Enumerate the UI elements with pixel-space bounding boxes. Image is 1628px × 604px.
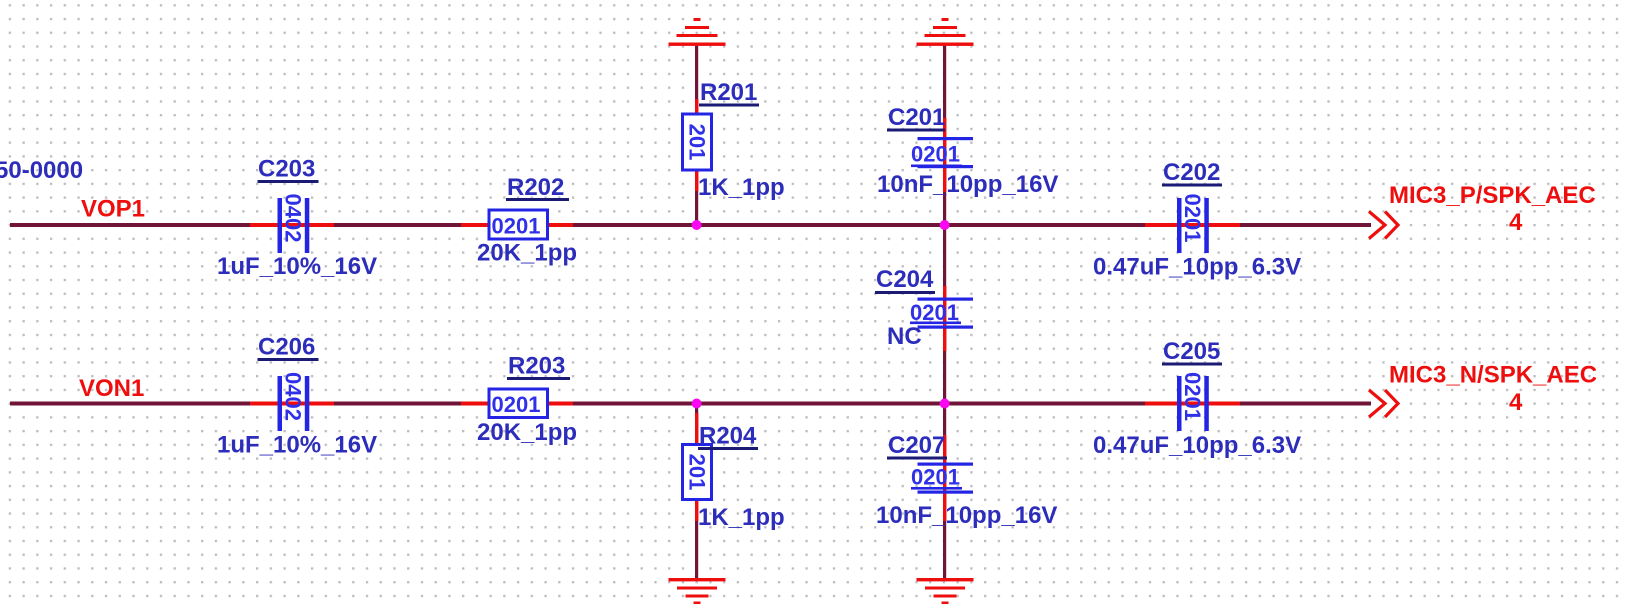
wire red pin stub R202 left: [461, 223, 489, 227]
svg-text:0201: 0201: [492, 214, 541, 239]
svg-text:C207: C207: [888, 432, 945, 459]
svg-text:C202: C202: [1163, 159, 1220, 186]
svg-text:10nF_10pp_16V: 10nF_10pp_16V: [877, 171, 1058, 198]
svg-text:1K_1pp: 1K_1pp: [698, 504, 785, 531]
capacitor C207 body: [911, 463, 973, 494]
svg-text:R202: R202: [507, 174, 564, 201]
svg-text:C206: C206: [258, 334, 315, 361]
svg-text:0201: 0201: [911, 142, 960, 167]
off-page connector MIC3_P chevron: [1369, 212, 1398, 239]
svg-text:0402: 0402: [281, 372, 306, 421]
svg-text:0201: 0201: [1180, 194, 1205, 243]
svg-text:C205: C205: [1163, 338, 1220, 365]
svg-text:VOP1: VOP1: [81, 196, 145, 223]
junction node VOP1/R201: [692, 220, 702, 230]
svg-text:VON1: VON1: [79, 375, 144, 402]
ground GND top-left (inverted earth): [669, 18, 726, 46]
capacitor C201 label: [887, 104, 945, 132]
resistor R202 label: [506, 174, 569, 201]
svg-text:20K_1pp: 20K_1pp: [477, 419, 577, 446]
capacitor C206 body: [278, 372, 310, 431]
capacitor C202 body: [1177, 194, 1209, 253]
wire vertical C201/C204/C207 branch: [943, 44, 946, 580]
resistor R204 body: [683, 445, 712, 500]
capacitor C201 body: [911, 137, 973, 168]
wire red pin stub R204 bottom: [695, 499, 698, 521]
resistor R204 label: [698, 423, 758, 451]
wire red pin stub R203 left: [461, 402, 489, 406]
ground GND top-right (inverted earth): [917, 18, 974, 46]
wire red pin stub R201 bottom: [695, 170, 698, 191]
svg-text:0201: 0201: [911, 465, 960, 490]
resistor R201 body: [683, 114, 712, 170]
svg-text:C203: C203: [258, 156, 315, 183]
wire red pin stub R204 top: [695, 413, 698, 445]
svg-text:201: 201: [685, 124, 710, 161]
svg-text:4: 4: [1509, 209, 1523, 236]
junction node VON1/C207: [940, 399, 950, 409]
capacitor C207 label: [887, 432, 947, 460]
svg-text:NC: NC: [887, 323, 922, 350]
svg-text:0201: 0201: [910, 300, 959, 325]
svg-text:1uF_10%_16V: 1uF_10%_16V: [217, 432, 377, 459]
wire red pin stub C206: [250, 402, 334, 406]
ground GND bottom-right (earth): [917, 578, 974, 604]
resistor R202 body: [489, 210, 548, 239]
junction node VOP1/C201: [940, 220, 950, 230]
capacitor C204 label: [875, 266, 935, 294]
svg-text:0201: 0201: [1180, 372, 1205, 421]
capacitor C205 body: [1177, 372, 1209, 431]
wire red pin stub C205: [1145, 402, 1240, 406]
svg-text:0.47uF_10pp_6.3V: 0.47uF_10pp_6.3V: [1093, 254, 1301, 281]
resistor R203 body: [489, 389, 548, 418]
resistor R201 label: [699, 79, 759, 107]
wire red pin stub C202: [1145, 223, 1240, 227]
wire red pin stub C207: [943, 435, 946, 521]
capacitor C206 label: [258, 334, 319, 362]
capacitor C203 body: [278, 194, 310, 253]
wire red pin stub R203 right: [547, 402, 573, 406]
wire vertical R201 branch: [695, 44, 698, 227]
svg-text:R201: R201: [700, 79, 757, 106]
wire red pin stub C203: [250, 223, 334, 227]
svg-text:0201: 0201: [492, 392, 541, 417]
junction node VON1/R204: [692, 399, 702, 409]
wire red pin stub C204: [943, 286, 946, 351]
svg-text:C204: C204: [876, 266, 934, 293]
svg-text:10nF_10pp_16V: 10nF_10pp_16V: [876, 502, 1057, 529]
wire net VOP1 horizontal: [10, 223, 1371, 227]
svg-text:R203: R203: [508, 353, 565, 380]
wire red pin stub R201 top: [695, 99, 698, 114]
svg-text:0.47uF_10pp_6.3V: 0.47uF_10pp_6.3V: [1093, 432, 1301, 459]
svg-text:201: 201: [685, 454, 710, 491]
resistor R203 label: [507, 353, 570, 381]
capacitor C204 body: [910, 298, 973, 329]
svg-text:R204: R204: [699, 423, 757, 450]
capacitor C202 label: [1162, 159, 1222, 187]
off-page connector MIC3_N chevron: [1369, 390, 1398, 417]
svg-text:1uF_10%_16V: 1uF_10%_16V: [217, 253, 377, 280]
svg-text:0402: 0402: [281, 194, 306, 243]
svg-text:MIC3_P/SPK_AEC: MIC3_P/SPK_AEC: [1389, 182, 1596, 209]
ground GND bottom-left (earth): [669, 578, 726, 604]
wire red pin stub R202 right: [547, 223, 573, 227]
capacitor C205 label: [1162, 338, 1222, 366]
capacitor C203 label: [258, 156, 319, 184]
wire red pin stub C201: [943, 118, 946, 192]
svg-text:50-0000: 50-0000: [0, 157, 83, 184]
wire net VON1 horizontal: [10, 402, 1371, 406]
svg-text:20K_1pp: 20K_1pp: [477, 240, 577, 267]
svg-text:C201: C201: [888, 104, 945, 131]
svg-text:4: 4: [1509, 389, 1523, 416]
svg-text:1K_1pp: 1K_1pp: [698, 174, 785, 201]
svg-text:MIC3_N/SPK_AEC: MIC3_N/SPK_AEC: [1389, 362, 1597, 389]
wire vertical R204 branch: [695, 403, 698, 580]
